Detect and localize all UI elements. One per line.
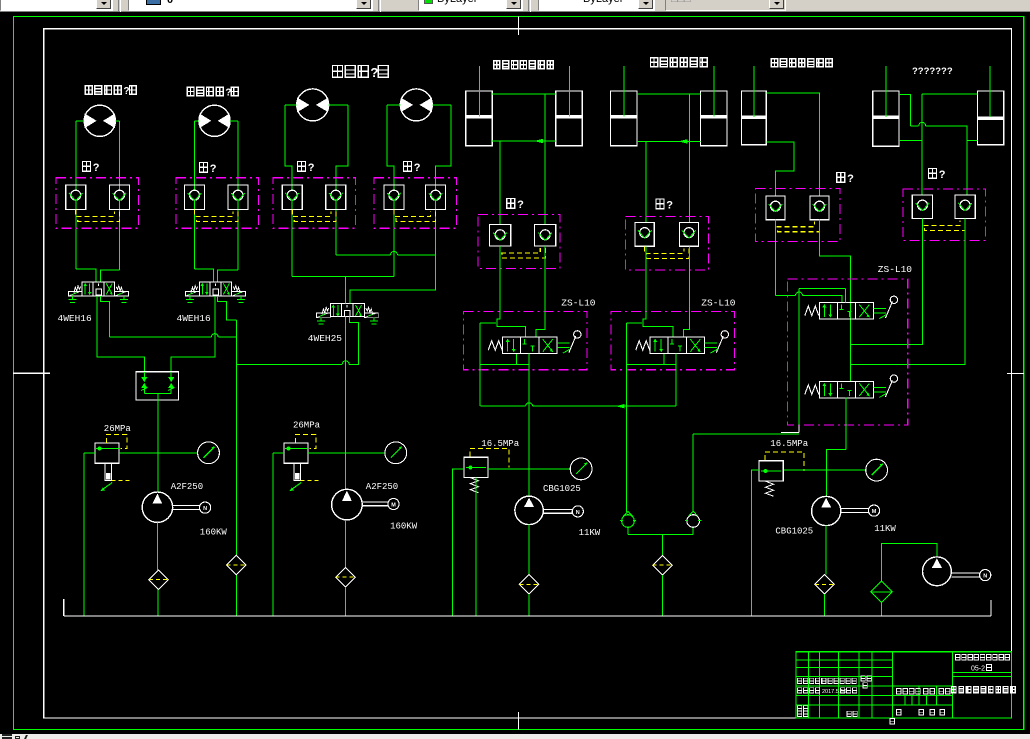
wire ZS3b out [845,398,847,450]
wire CV2 up [692,434,694,512]
title block [796,652,1012,718]
filter F7 (green) [871,581,892,602]
svg-text:?: ? [517,199,524,211]
pilot check valve CY2-R [679,222,698,246]
svg-text:11KW: 11KW [579,528,601,538]
svg-text:N: N [983,574,987,580]
wire CY2 feed B [689,94,691,222]
wire CV2 to ZS3 drain [693,433,799,435]
wire CV1 down [627,527,629,534]
filter F2 [227,555,246,574]
pump P4 CBG1025 [812,496,841,525]
wire RV4 to tank [751,470,759,616]
wire CY1b rod line [569,66,571,116]
wire CY2a rod line [623,66,625,116]
wire 4WEH25-A up [345,276,347,303]
lock block CY3 enclosure [756,188,841,241]
label hydraulic lock CY3 [837,173,845,183]
wire rear header A [292,275,394,277]
hydraulic motor M1 front-left [84,105,115,136]
pilot check valve 3L [282,185,302,210]
lock block CY4 enclosure [903,189,985,241]
directional valve 4WEH16 no.2 [199,282,231,296]
wire RV1 to tank [83,453,85,616]
wire M1-A to valve V1 [76,269,96,282]
wire CY2-B to ZS2 [689,246,691,311]
wire CY1 feed A [499,141,501,225]
wire RV2 to tank [272,453,274,616]
filter F3 [336,568,355,587]
svg-text:4WEH16: 4WEH16 [177,313,212,324]
wire to CY4b bottom [967,140,978,142]
wire ZS1 to pump3 [528,370,530,496]
relief valve RV1 26MPa [95,443,119,463]
svg-text:?: ? [210,163,217,175]
wire header to CV1 (dup) [626,406,628,512]
wire M2 left stub [195,120,199,122]
svg-text:05-2: 05-2 [971,666,985,673]
svg-text:?: ? [370,65,378,80]
wire M3 left down [285,105,292,276]
svg-text:?: ? [666,200,673,212]
wire CY1-B to ZS1 [544,246,546,312]
wire ZS3 inner frame top [799,288,845,290]
hydraulic motor M2 front-right [199,105,230,136]
check valve CV1 [622,515,635,528]
wire divider join [144,393,171,395]
wire M2-B to valve V2 [218,270,239,282]
manual valve ZS3b [819,381,873,398]
wire CY4-L to ZS3 [851,219,923,345]
centre tick bottom [518,712,520,730]
flow divider block [136,372,178,400]
wire M2 right down [237,121,239,270]
cylinder CY4b [978,91,1004,145]
svg-text:4WEH16: 4WEH16 [58,313,93,324]
wire CY2 top header [637,93,701,95]
svg-text:16.5MPa: 16.5MPa [481,439,519,449]
wire V2-P to divider [171,296,215,372]
label hydraulic lock 1 [83,162,91,172]
wire CV join [628,534,693,536]
tank return line [64,615,991,617]
wire CY4a rod line [885,66,887,117]
wire CY2b rod line [713,66,715,116]
wire CY1 top header [492,93,556,95]
wire P2 suction upper [345,520,347,568]
wire ZS header a [480,405,525,407]
centre tick top [518,17,520,36]
filter F4 [653,556,672,575]
label front-right travel motor [187,87,194,96]
wire CV2 down [692,527,694,534]
svg-text:N: N [576,510,580,516]
pilot check valve CY3-R [810,196,829,220]
relief valve RV4 [759,461,783,481]
label cutting-head lift cylinders [494,61,500,69]
pilot check valve 2R [228,185,248,210]
wire CY4b top header [922,93,977,95]
pilot check valve 1R [109,185,129,210]
filter F5 [519,575,538,594]
lock block 3 enclosure [273,178,356,229]
cylinder CY2b [701,91,727,146]
toolbar [0,0,1030,12]
wire RV3 to gauge G3 [488,468,570,470]
svg-text:?: ? [225,88,231,99]
wire divider out [157,394,159,400]
pressure gauge G4 [866,459,888,481]
label body lift cylinders [651,58,658,67]
wire P3 suction upper [528,525,530,575]
cylinder CY4a [873,91,899,146]
command line strip [0,734,1030,739]
manual valve ZS2 [650,337,704,354]
pilot lines CY4 [923,219,961,226]
wire CY4 cross b [926,126,967,141]
label hydraulic lock CY4 [929,169,937,179]
wire CY3-A down [775,220,777,296]
ZS-L10 block1 internal wires [497,312,526,338]
wire CY4a bottom [899,140,922,142]
pressure gauge G2 [385,442,407,464]
relief valve RV2 26MPa [284,443,308,463]
wire M3 right down [336,105,348,255]
wire ZS3 inner frame right [844,289,846,303]
wire to filter F4 [661,535,663,556]
wire M2 left down [194,121,196,269]
wire F7 to tank [881,602,883,616]
wire CY3 top to lock [766,93,819,196]
wire V1-T right b [218,336,236,338]
manual valve ZS1 [503,337,557,354]
wire CY4 feed R [966,141,968,195]
wire ZS header b [533,405,676,407]
wire CY4 feed L [921,94,923,195]
svg-text:4WEH25: 4WEH25 [308,333,343,344]
svg-text:CBG1025: CBG1025 [543,484,581,494]
wire RV4 to gauge G4 [784,469,865,471]
svg-text:2017.5.10: 2017.5.10 [822,689,846,695]
pilot lines lock 3 [292,210,331,217]
svg-text:?: ? [124,86,130,97]
svg-text:CBG1025: CBG1025 [775,527,813,537]
svg-text:160KW: 160KW [390,522,418,532]
manual valve ZS3a [819,303,873,320]
pilot check valve 2L [185,185,205,210]
svg-text:?: ? [308,162,315,174]
directional valve 4WEH25 [330,304,364,317]
lock block 1 enclosure [56,178,139,229]
svg-text:ZS-L10: ZS-L10 [878,264,913,275]
pilot check valve CY1-R [535,225,556,246]
pilot lines CY1 [500,246,540,253]
pump P5 [923,557,952,586]
wire CY3-A right b [803,296,842,303]
wire rear header B b [350,255,436,304]
ZS-L10 block 2 enclosure [611,312,734,370]
pressure gauge G1 [198,442,220,464]
wire CY3-A right a [776,295,796,297]
pilot check valve CY3-L [766,196,785,220]
wire CY3 rod line [753,66,755,117]
wire M4 left stub [387,104,400,106]
pilot lines CY3 [776,220,815,227]
svg-text:N: N [203,506,207,512]
ZS-L10 block2 internal wires [643,312,673,338]
wire CY2-A to ZS2 [645,246,647,311]
pilot check valve 4L [384,185,404,210]
wire RV3 spring line to tank [475,478,477,616]
check valve CV2 [687,515,700,528]
label hydraulic lock CY1 [507,199,515,209]
svg-text:M: M [391,503,396,509]
pilot check valve 4R [426,185,446,210]
svg-text:?: ? [414,162,421,174]
pressure gauge G3 [570,458,592,480]
wire CY4-R to ZS3 [851,219,965,365]
wire F5 to tank [528,594,530,616]
wire 4WEH25-P to pump2 [345,317,347,490]
wire V2-T jog [218,296,237,320]
wire V1-T jog down [100,296,109,337]
svg-text:26MPa: 26MPa [104,424,132,434]
wire CY2 feed A [645,141,647,222]
ZS-L10 block 1 enclosure [464,312,587,370]
wire ZS3 to pump4 [826,449,846,496]
wire ZS1 centre out [528,354,530,370]
pilot check valve 1L [66,185,86,210]
label hydraulic lock CY2 [656,199,664,209]
wire F1 to tank [157,589,159,616]
directional valve 4WEH16 no.1 [82,282,114,296]
pilot check valve CY2-L [635,222,654,246]
wire M1 left down [75,121,77,269]
mark below title block [890,719,895,725]
pilot check valve CY1-L [489,225,510,246]
label hydraulic lock 2 [200,163,208,173]
pilot lines lock 2 [195,210,234,217]
wire T-line down to filter [235,320,237,556]
wire RV1 inlet [84,452,95,454]
wire M1 left stub [76,120,84,122]
pilot lines CY2 [645,246,684,253]
wire M3 left stub [285,104,297,106]
wire CY4 cross a [910,125,918,127]
wire CY1-A to ZS1 [499,246,501,312]
wire ZS2 left out [626,364,628,406]
wire P1 suction upper [157,522,159,570]
flow divider internals [143,372,145,377]
lock block CY1 enclosure [478,214,560,268]
wire M2-A to valve V2 [195,269,214,282]
wire rear header B a [336,254,391,256]
lock block 4 enclosure [374,178,457,229]
wire CY1 feed B [544,94,546,225]
wire M3 right stub [329,104,348,106]
pump P2 A2F250 [332,489,363,520]
wire RV1 to gauge G1 [119,452,198,454]
wire M4 right down [436,105,451,255]
wire F6 to tank [824,594,826,616]
wire M4 right stub [432,104,451,106]
lock block CY2 enclosure [626,216,709,270]
label hydraulic lock 3 [298,162,306,172]
filter F1 [149,570,168,589]
pump P3 CBG1025 [515,496,543,524]
pump P1 A2F250 [142,492,172,522]
drawing title text [952,686,957,692]
pilot check valve CY4-R [955,195,975,219]
svg-text:A2F250: A2F250 [171,482,203,492]
ZS-L10 block 3 enclosure [788,279,908,425]
ZS-L10 block3 internal wires [798,289,800,425]
wire V1-P to divider [97,296,144,372]
svg-text:160KW: 160KW [200,528,228,538]
filter F6 [815,575,834,594]
school dept text [956,655,960,660]
svg-text:?: ? [93,162,100,174]
wire M1-B to valve V1 [100,270,119,282]
label front-left travel motor [85,86,92,95]
label hydraulic lock 4 [404,162,412,172]
hydraulic motor M4 rear-right [400,89,432,121]
wire P5 suction [882,543,938,581]
cylinder CY2a [611,91,638,146]
wire F4 to tank [661,575,663,616]
svg-text:A2F250: A2F250 [366,482,398,492]
label loader lift cylinder [771,59,777,67]
wire T-header left [236,363,342,365]
wire M1 right stub [115,120,119,122]
wire M2 right stub [230,120,238,122]
wire ZS2 centre out [675,354,677,370]
relief valve RV3 [464,457,488,477]
wire V1-T right a [110,336,212,338]
wire filter to tank [235,575,237,616]
wire ZS1 left out [479,364,481,406]
wire CY1a rod line [478,66,480,116]
cylinder CY3 [742,91,767,145]
wire CY1 bottom header [492,140,556,142]
wire RV3 to tank [453,469,464,616]
svg-text:11KW: 11KW [874,524,896,534]
svg-text:26MPa: 26MPa [293,421,321,431]
svg-text:16.5MPa: 16.5MPa [770,439,808,449]
wire CY3-B bus to ZS3 [820,220,851,382]
pilot lines lock 1 [76,210,115,217]
wire M1 right down [119,121,121,270]
wire RV2 inlet [273,452,284,454]
pilot lines lock 4 [394,210,431,217]
centre tick left [13,372,50,374]
svg-text:?: ? [847,173,854,185]
pilot check valve CY4-L [912,195,932,219]
wire CY3 bottom to lock [766,142,794,196]
svg-text:ZS-L10: ZS-L10 [701,298,736,309]
svg-text:?: ? [939,169,946,181]
wire CY4a top jog [899,95,911,126]
wire F3 to tank [344,587,346,616]
label rear travel motors [333,66,343,78]
wire M4 left down [387,105,394,276]
pilot check valve 3R [326,185,346,210]
title block texts [798,678,802,683]
cylinder CY1b [556,91,583,146]
drain stub white [798,425,800,432]
title block grid [796,659,892,661]
drain line white part [781,431,799,433]
wire 4WEH25-B [349,317,358,365]
svg-text:???????: ??????? [912,66,953,77]
cylinder CY1a [466,91,492,146]
wire RV2 to gauge G2 [308,452,385,454]
lock block 2 enclosure [176,178,259,229]
wire ZS2 centre to header [675,370,677,407]
wire P4 suction upper [825,526,827,575]
hydraulic motor M3 rear-left [297,89,329,121]
svg-text:M: M [872,509,877,515]
wire CY2 bottom header [637,140,701,142]
centre tick right [1007,373,1024,375]
wire CY4b rod line [989,66,991,117]
svg-text:ZS-L10: ZS-L10 [561,298,596,309]
wire divider to pump1 [157,400,159,492]
